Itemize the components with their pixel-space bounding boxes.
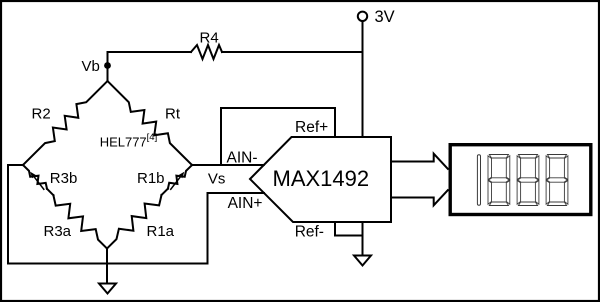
svg-text:Ref-: Ref-	[295, 223, 324, 240]
segment A	[547, 155, 566, 159]
segment E	[546, 181, 550, 205]
segment C	[535, 181, 539, 205]
segment F	[488, 156, 492, 180]
wire data out top	[391, 154, 448, 169]
segment E	[488, 181, 492, 205]
wire AIN+ riser	[207, 193, 209, 264]
segment C	[506, 181, 510, 205]
segment D	[489, 202, 508, 206]
wire GND drop from MAX bottom	[362, 222, 364, 256]
resistor Rt (bridge top-right arm)	[108, 81, 193, 165]
wire R1b to R1a	[162, 189, 168, 195]
svg-text:AIN-: AIN-	[227, 150, 258, 167]
segment A	[518, 155, 537, 159]
wire left node to left rail	[8, 164, 23, 166]
segment D	[518, 202, 537, 206]
wire AIN- from bridge right node	[192, 164, 264, 166]
segment A	[489, 155, 508, 159]
svg-text:Vb: Vb	[82, 58, 100, 75]
wire bottom rail	[8, 263, 208, 265]
resistor R2 (bridge top-left arm)	[23, 81, 108, 165]
wire data out bottom	[391, 190, 448, 205]
resistor R1a (bridge bottom-right arm)	[107, 195, 162, 249]
op-amp U1 MAX1492 outline	[250, 137, 391, 222]
svg-text:AIN+: AIN+	[228, 195, 263, 212]
svg-text:R1b: R1b	[137, 170, 165, 187]
wire left rail down	[7, 165, 9, 264]
segment D	[547, 202, 566, 206]
segment E	[517, 181, 521, 205]
ground (Ref-)	[354, 256, 371, 266]
wire 3V vertical to MAX1492 top	[362, 21, 364, 137]
trimmer arrow R1b	[171, 176, 182, 190]
svg-text:3V: 3V	[375, 8, 395, 26]
svg-text:Ref+: Ref+	[295, 119, 328, 136]
resistor R3b trimmer zigzag (bridge bottom-left arm)	[23, 165, 47, 189]
3V terminal circle	[358, 12, 367, 21]
segment C	[564, 181, 568, 205]
segment B	[535, 156, 539, 180]
svg-text:Rt: Rt	[165, 106, 181, 123]
wire AIN+	[208, 192, 265, 194]
wire Vb drop	[107, 52, 109, 81]
segment B	[506, 156, 510, 180]
digit 1	[477, 155, 480, 205]
wire bridge bottom to ground	[106, 249, 108, 284]
trimmer arrow R3b	[33, 176, 44, 190]
wire R4 rail	[108, 51, 192, 53]
ground (bridge)	[99, 284, 116, 294]
segment G	[518, 178, 539, 182]
segment G	[489, 178, 510, 182]
segment F	[517, 156, 521, 180]
node Vb junction dot	[104, 62, 111, 69]
svg-text:Vs: Vs	[208, 171, 226, 188]
wire Ref+ riser	[220, 108, 222, 165]
resistor R4	[191, 45, 222, 59]
wire Ref- stub	[335, 222, 363, 236]
wire R3b to R3a	[47, 189, 53, 195]
segment G	[547, 178, 568, 182]
svg-text:R3b: R3b	[50, 170, 78, 187]
wire Ref+ drop to MAX top	[334, 108, 336, 137]
wire Ref+ top	[221, 107, 335, 109]
segment B	[564, 156, 568, 180]
resistor R1b trimmer zigzag (bridge bottom-right arm)	[168, 165, 192, 189]
svg-text:R2: R2	[32, 106, 51, 123]
svg-text:R3a: R3a	[44, 223, 72, 240]
wire R4 to 3V rail	[222, 51, 363, 53]
svg-text:R1a: R1a	[147, 223, 175, 240]
svg-text:MAX1492: MAX1492	[273, 166, 370, 191]
display module box	[450, 145, 591, 215]
resistor R3a (bridge bottom-left arm)	[53, 195, 107, 248]
svg-text:R4: R4	[200, 30, 219, 47]
segment F	[546, 156, 550, 180]
svg-text:HEL777[4]: HEL777[4]	[100, 132, 158, 150]
seven-segment digits	[477, 155, 568, 206]
